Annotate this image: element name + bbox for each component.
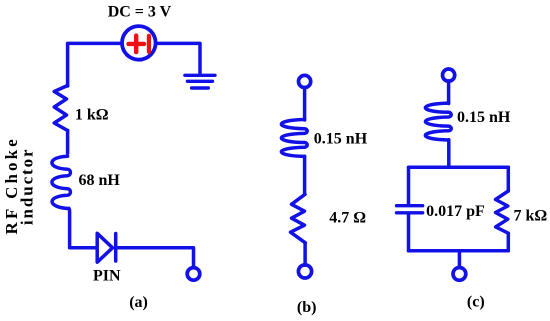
diode D1 PIN triangle xyxy=(97,233,112,262)
svg-text:(a): (a) xyxy=(129,294,148,311)
svg-text:(c): (c) xyxy=(467,293,485,310)
svg-text:inductor: inductor xyxy=(18,148,37,226)
wire (b) middle xyxy=(303,156,307,194)
inductor 0.15 nH (b) xyxy=(281,120,307,157)
inductor 0.15 nH (c) xyxy=(425,103,451,140)
terminal circle (b) bottom xyxy=(298,265,311,278)
box right edge upper xyxy=(507,167,511,191)
resistor R1 1 kOhm xyxy=(54,86,67,131)
box left edge lower xyxy=(407,215,411,251)
box left edge upper (to capacitor) xyxy=(407,167,411,204)
DC source polarity bar xyxy=(147,36,151,52)
box top edge xyxy=(409,166,509,170)
terminal circle (a) xyxy=(187,268,200,281)
svg-text:DC = 3 V: DC = 3 V xyxy=(108,3,172,20)
capacitor C plates xyxy=(397,206,423,213)
svg-text:0.15 nH: 0.15 nH xyxy=(314,130,368,147)
wire (c) bottom to terminal xyxy=(458,251,462,267)
ground xyxy=(185,75,215,88)
svg-text:0.15 nH: 0.15 nH xyxy=(457,109,511,126)
svg-text:7 kΩ: 7 kΩ xyxy=(514,208,548,225)
box right edge lower xyxy=(507,233,511,251)
wire R1 to L1 xyxy=(66,131,70,154)
resistor 4.7 Ohm xyxy=(291,194,306,243)
wire top-left from source to left corner down to R1 xyxy=(68,43,122,86)
wire L1 down and right to diode xyxy=(69,208,96,247)
wire (b) bottom xyxy=(303,243,307,265)
svg-text:68 nH: 68 nH xyxy=(79,172,121,189)
resistor 7 kOhm on right edge xyxy=(496,191,509,233)
svg-text:(b): (b) xyxy=(297,299,317,316)
svg-text:PIN: PIN xyxy=(93,267,121,284)
inductor L1 68 nH (RF choke) xyxy=(52,156,71,208)
wire diode to terminal xyxy=(117,248,193,267)
svg-text:0.017 pF: 0.017 pF xyxy=(426,203,485,220)
wire (c) coil to box xyxy=(447,140,451,168)
terminal circle (c) top xyxy=(443,69,455,81)
DC source V1 circle xyxy=(122,26,156,60)
box bottom edge xyxy=(409,249,509,253)
wire top-right from source to ground xyxy=(156,43,200,73)
wire (c) top xyxy=(447,81,451,104)
svg-text:4.7 Ω: 4.7 Ω xyxy=(329,210,366,227)
wire (b) top xyxy=(303,87,307,120)
svg-text:1 kΩ: 1 kΩ xyxy=(75,106,109,123)
DC source polarity plus xyxy=(129,36,145,53)
diode D1 cathode bar xyxy=(114,234,118,262)
terminal circle (b) top xyxy=(299,75,311,87)
terminal circle (c) bottom xyxy=(453,268,466,281)
